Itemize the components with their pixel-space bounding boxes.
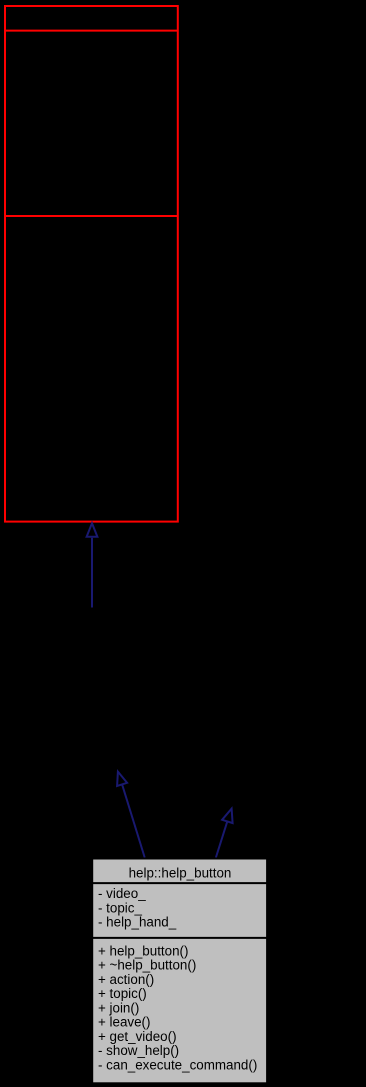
- name/attribute compartment divider: [4, 30, 178, 32]
- svg-text:- help_hand_: - help_hand_: [98, 915, 177, 930]
- svg-text:- topic_: - topic_: [98, 900, 142, 915]
- svg-text:help::help_button: help::help_button: [129, 866, 232, 881]
- inheritance arrow (bottom-left, to hidden parent): [117, 772, 145, 858]
- svg-text:- video_: - video_: [98, 886, 146, 901]
- inheritance arrow to base class (top): [87, 523, 98, 607]
- name/attribute compartment divider: [91, 882, 267, 884]
- svg-text:+ join(): + join(): [98, 1000, 139, 1015]
- svg-text:+ get_video(): + get_video(): [98, 1029, 177, 1044]
- svg-text:- show_help(): - show_help(): [98, 1043, 179, 1058]
- inheritance arrow (bottom-right, to hidden parent): [216, 809, 233, 858]
- attribute/method compartment divider: [4, 215, 178, 217]
- class help::help_button (grey node): [91, 859, 267, 1084]
- svg-text:+ action(): + action(): [98, 972, 154, 987]
- svg-text:+ leave(): + leave(): [98, 1015, 150, 1030]
- attribute/method compartment divider: [91, 937, 267, 939]
- svg-text:+ help_button(): + help_button(): [98, 943, 188, 958]
- svg-text:+ topic(): + topic(): [98, 986, 147, 1001]
- svg-text:+ ~help_button(): + ~help_button(): [98, 958, 196, 973]
- base class box (red, truncated node): [4, 6, 178, 522]
- svg-text:- can_execute_command(): - can_execute_command(): [98, 1057, 257, 1072]
